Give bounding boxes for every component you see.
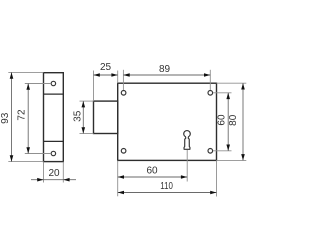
svg-text:72: 72 bbox=[16, 109, 27, 121]
dimension 80 arrow up bbox=[241, 83, 245, 89]
faceplate upper inner line bbox=[44, 93, 64, 95]
dimension 89 extension line right bbox=[209, 70, 211, 90]
dimension 25 arrow left bbox=[94, 73, 100, 77]
dimension 110 arrow left bbox=[118, 191, 124, 195]
dimension 72 line bbox=[27, 84, 29, 154]
dimension 60 right arrow down bbox=[226, 145, 230, 151]
dimension 110 arrow right bbox=[210, 191, 216, 195]
case hole top-right bbox=[208, 91, 213, 96]
svg-text:35: 35 bbox=[73, 110, 84, 122]
svg-text:20: 20 bbox=[48, 168, 60, 179]
dimension 35 extension line bottom bbox=[80, 133, 94, 135]
dimension 60 right extension line bottom bbox=[213, 150, 232, 152]
dimension 20 line bbox=[31, 179, 76, 181]
dimension 93 extension line top bbox=[8, 71, 43, 73]
dimension 35 arrow up bbox=[82, 101, 86, 107]
dimension 93 extension line bottom bbox=[8, 161, 43, 163]
dimension 93 arrow down bbox=[10, 155, 14, 161]
dimension 80 extension line top bbox=[217, 82, 247, 84]
dimension 35 line bbox=[82, 101, 84, 133]
dimension 60 bottom line bbox=[118, 176, 188, 178]
faceplate lower inner line bbox=[44, 140, 64, 142]
dimension 60 bottom arrow left bbox=[118, 175, 124, 179]
faceplate outline bbox=[44, 73, 64, 162]
dimension 60 bottom extension line left bbox=[117, 160, 119, 196]
svg-text:60: 60 bbox=[146, 166, 158, 177]
dimension 60 right extension line top bbox=[213, 92, 232, 94]
dimension 20 arrow right bbox=[63, 178, 69, 182]
svg-text:89: 89 bbox=[159, 64, 171, 75]
dimension 72 extension line top bbox=[25, 83, 51, 85]
svg-text:110: 110 bbox=[160, 181, 173, 192]
dimension 72 arrow up bbox=[26, 84, 30, 90]
dimension 89 arrow left bbox=[123, 73, 129, 77]
dimension 25 extension line left bbox=[93, 71, 95, 102]
dimension 60 bottom arrow right bbox=[181, 175, 187, 179]
case hole top-left bbox=[121, 91, 126, 96]
dimension 110 extension line right bbox=[216, 160, 218, 196]
dimension 72 extension line bottom bbox=[25, 153, 51, 155]
dimension 93 arrow up bbox=[10, 72, 14, 78]
lock case outline bbox=[118, 83, 217, 160]
dimension 20 extension line right bbox=[62, 162, 64, 183]
svg-text:93: 93 bbox=[0, 112, 11, 124]
faceplate bottom screw hole bbox=[51, 151, 55, 155]
dimension 93 line bbox=[11, 72, 13, 161]
dimension 35 extension line top bbox=[80, 100, 94, 102]
dimension 25 extension line right bbox=[117, 71, 119, 84]
dimension 72 arrow down bbox=[26, 147, 30, 153]
case hole bottom-left bbox=[121, 149, 126, 154]
dimension 20 arrow left bbox=[37, 178, 43, 182]
case hole bottom-right bbox=[208, 149, 213, 154]
faceplate top screw hole bbox=[51, 81, 55, 85]
dimension 89 line bbox=[123, 74, 210, 76]
svg-text:80: 80 bbox=[228, 114, 239, 126]
dimension 80 line bbox=[242, 83, 244, 160]
dimension 35 arrow down bbox=[82, 127, 86, 133]
dimension 60 right line bbox=[227, 93, 229, 151]
dimension 60 right arrow up bbox=[226, 93, 230, 99]
dimension 25 arrow right bbox=[111, 73, 117, 77]
follower box outline bbox=[94, 101, 118, 133]
keyhole bbox=[184, 131, 191, 150]
dimension 80 arrow down bbox=[241, 154, 245, 160]
svg-text:60: 60 bbox=[217, 114, 228, 126]
dimension 60 bottom extension line keyhole bbox=[186, 150, 188, 182]
dimension 89 extension line left bbox=[122, 70, 124, 90]
dimension 110 line bbox=[118, 192, 217, 194]
dimension 20 extension line left bbox=[43, 162, 45, 183]
svg-text:25: 25 bbox=[100, 62, 112, 73]
dimension 80 extension line bottom bbox=[217, 159, 247, 161]
dimension 89 arrow right bbox=[204, 73, 210, 77]
dimension 25 line bbox=[94, 74, 118, 76]
